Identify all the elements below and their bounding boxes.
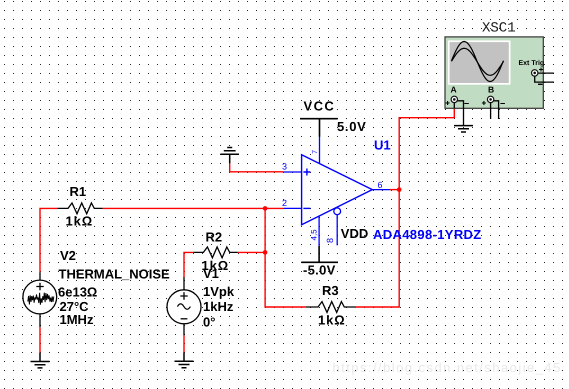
ground (inverted) at op-amp non-inverting input: [220, 148, 239, 164]
svg-text:1kHz: 1kHz: [203, 299, 234, 314]
svg-text:V2: V2: [60, 248, 76, 263]
svg-text:5.0V: 5.0V: [337, 119, 367, 134]
svg-text:B: B: [488, 85, 494, 95]
svg-text:XSC1: XSC1: [482, 21, 516, 37]
wire: op-amp output to junction J3: [390, 189, 400, 191]
svg-text:1MHz: 1MHz: [60, 312, 94, 327]
svg-text:THERMAL_NOISE: THERMAL_NOISE: [59, 267, 171, 282]
junction J3: [397, 187, 402, 192]
svg-text:6e13Ω: 6e13Ω: [58, 285, 97, 300]
svg-text:A: A: [451, 85, 457, 95]
resistor R1: [58, 184, 103, 229]
wire: scope A- to ground: [463, 108, 465, 124]
ground below V2: [31, 353, 50, 368]
svg-text:1Vpk: 1Vpk: [203, 284, 235, 299]
op-amp U1 ADA4898-1YRDZ: [282, 137, 482, 246]
svg-text:R1: R1: [70, 184, 87, 199]
VDD label on pin 8: [341, 226, 368, 241]
svg-text:R2: R2: [206, 230, 223, 245]
svg-text:VCC: VCC: [304, 99, 336, 114]
svg-text:3: 3: [282, 162, 287, 172]
wire: V2 top to R1 left: [40, 208, 58, 272]
svg-text:Ext Trig: Ext Trig: [519, 59, 545, 67]
wire: ground to op-amp non-inverting input: [230, 163, 284, 172]
wire: J1 down through J2 to R3 left: [265, 208, 306, 307]
resistor R3: [306, 283, 355, 328]
svg-text:4,5: 4,5: [310, 229, 319, 241]
svg-text:6: 6: [378, 180, 383, 190]
source V1 AC: [167, 266, 235, 335]
source V2 thermal noise: [23, 248, 170, 327]
ground below V1: [175, 352, 194, 367]
svg-text:0°: 0°: [203, 315, 215, 330]
svg-text:2: 2: [282, 198, 287, 208]
oscilloscope XSC1: [445, 21, 554, 120]
wire: R3 right up to scope channel A: [355, 105, 454, 308]
svg-text:U1: U1: [374, 138, 391, 153]
svg-text:VDD: VDD: [341, 226, 368, 241]
wire: V1 bottom to ground: [183, 335, 185, 352]
VEE power symbol -5.0V: [301, 246, 338, 278]
svg-text:8: 8: [325, 238, 335, 243]
svg-text:-5.0V: -5.0V: [303, 263, 336, 278]
VCC power symbol 5.0V: [300, 99, 367, 137]
svg-text:1kΩ: 1kΩ: [318, 313, 346, 328]
svg-text:V1: V1: [203, 266, 219, 281]
ground below scope: [454, 125, 473, 133]
svg-text:7: 7: [312, 150, 319, 154]
wire: V2 bottom to ground: [39, 327, 41, 352]
junction J2: [263, 250, 268, 255]
svg-text:ADA4898-1YRDZ: ADA4898-1YRDZ: [373, 227, 482, 242]
svg-text:1kΩ: 1kΩ: [66, 214, 94, 229]
resistor R2: [193, 230, 237, 274]
wire: R1 right to junction J1: [103, 207, 284, 209]
svg-text:R3: R3: [322, 283, 339, 298]
wire: R2 right to junction J2: [238, 251, 266, 253]
wire: V1 top to R2 left: [184, 252, 193, 277]
junction J1: [263, 206, 268, 211]
